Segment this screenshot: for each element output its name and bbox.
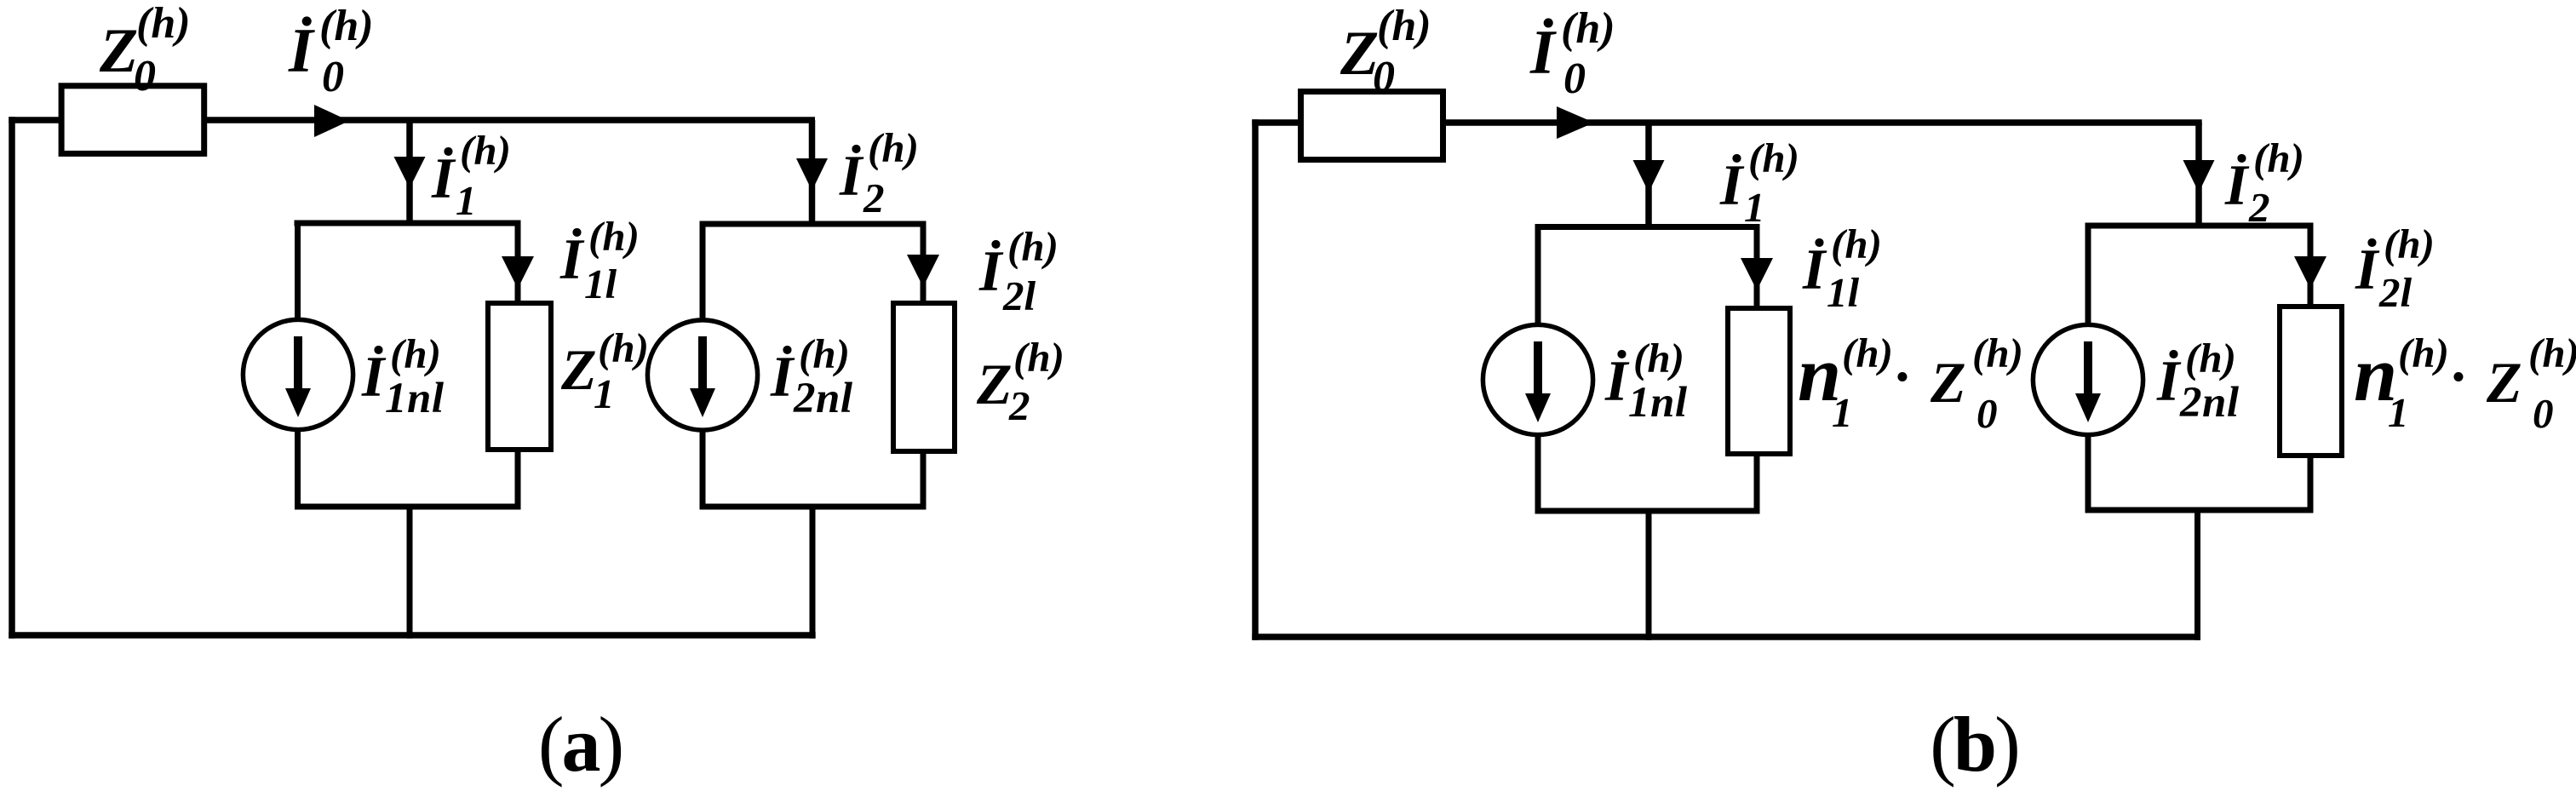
svg-text:(h): (h) (868, 124, 919, 171)
caption (a) (538, 701, 622, 788)
wire: (a) sub-loop-1 top (295, 221, 521, 226)
svg-text:(h): (h) (1842, 330, 1893, 376)
svg-text:(h): (h) (1972, 330, 2023, 376)
svg-text:Z: Z (560, 337, 597, 402)
svg-text:İ: İ (559, 226, 585, 291)
svg-text:1l: 1l (584, 261, 617, 307)
svg-text:1nl: 1nl (1628, 379, 1688, 427)
svg-text:(h): (h) (2384, 221, 2435, 267)
svg-text:(h): (h) (2528, 330, 2576, 376)
wire: (b) sub-loop-2 bottom (2085, 507, 2314, 513)
impedance n1*Z0 (b) branch 1 (1728, 308, 1790, 454)
svg-text:İ: İ (1529, 18, 1557, 88)
svg-text:(h): (h) (136, 0, 191, 48)
label Z0(h) (b) (1340, 2, 1431, 101)
svg-text:0: 0 (2533, 390, 2554, 437)
label I1nl(h) (b) (1604, 335, 1688, 427)
svg-text:1: 1 (456, 177, 477, 224)
wire: (b) outer-loop left vertical (1252, 119, 1259, 640)
svg-text:İ: İ (1719, 152, 1745, 217)
wire: (b) sub-loop-1 left upper (1535, 224, 1541, 325)
label I0(h) current (a) (288, 2, 374, 101)
svg-text:·: · (1895, 344, 1909, 409)
wire: (a) sub-loop-2 bottom stem (810, 507, 816, 639)
wire: (a) sub-loop-2 left lower (700, 428, 706, 510)
svg-text:2: 2 (863, 175, 885, 221)
svg-text:1l: 1l (1827, 269, 1860, 316)
svg-text:(h): (h) (319, 2, 374, 50)
wire: (a) sub-loop-2 left upper (700, 221, 706, 323)
current source I2nl (b) (2033, 324, 2143, 434)
svg-text:1: 1 (1832, 389, 1853, 436)
wire: (b) sub-loop-2 right lower (2308, 456, 2314, 513)
wire: (a) sub-loop-1 left lower (295, 428, 301, 510)
wire: (a) node-2 branch vertical (809, 120, 816, 226)
svg-text:(h): (h) (588, 213, 640, 260)
svg-text:(h): (h) (1633, 335, 1684, 381)
label I0(h) current (b) (1529, 4, 1615, 103)
wire: (b) top wire left segment (1252, 119, 1300, 126)
wire: (a) node-1 branch vertical (406, 120, 413, 223)
svg-text:(b): (b) (1930, 701, 2017, 788)
arrowhead I1l current direction (a) (502, 256, 534, 289)
wire: (b) node-1 branch vertical (1645, 123, 1652, 230)
svg-text:0: 0 (1373, 53, 1395, 101)
caption (b) (1930, 701, 2017, 788)
svg-text:0: 0 (134, 52, 156, 100)
svg-text:(h): (h) (460, 127, 511, 174)
svg-text:2: 2 (1008, 382, 1030, 429)
svg-text:(h): (h) (2185, 335, 2236, 381)
arrowhead I2 current direction (b) (2183, 160, 2215, 192)
resistor Z0 (b) (1301, 92, 1443, 160)
label I1l(h) (a) (559, 213, 640, 307)
label I1(h) (a) (431, 127, 511, 224)
svg-text:İ: İ (2224, 152, 2250, 217)
svg-text:0: 0 (1976, 390, 1998, 437)
svg-text:2l: 2l (1002, 272, 1036, 319)
wire: (b) node-2 branch vertical (2195, 123, 2202, 228)
svg-text:·: · (2451, 344, 2465, 409)
label n1(h)*Z0(h) (b) branch 1 (1798, 330, 2023, 437)
svg-text:Z: Z (976, 352, 1013, 416)
wire: (b) sub-loop-1 right lower (1754, 451, 1760, 514)
svg-text:(h): (h) (1748, 135, 1799, 181)
wire: (a) sub-loop-1 left upper (295, 221, 301, 323)
wire: (a) top wire right segment (Z0 to node 2) (204, 117, 815, 123)
wire: (b) sub-loop-1 bottom stem (1646, 511, 1652, 640)
svg-text:İ: İ (978, 238, 1004, 303)
resistor Z0 (a) (61, 86, 204, 154)
arrowhead I2l current direction (a) (907, 255, 939, 287)
impedance n1*Z0 (b) branch 2 (2280, 307, 2342, 456)
svg-text:2nl: 2nl (793, 375, 853, 422)
svg-text:(h): (h) (799, 330, 850, 377)
wire: (b) sub-loop-1 left lower (1535, 433, 1541, 514)
svg-text:(h): (h) (1007, 223, 1059, 270)
svg-text:İ: İ (839, 143, 864, 208)
svg-text:2nl: 2nl (2179, 379, 2240, 427)
arrowhead I2 current direction (a) (796, 158, 828, 191)
svg-text:2l: 2l (2378, 269, 2412, 316)
wire: (a) sub-loop-1 right lower (515, 450, 521, 510)
svg-text:İ: İ (431, 146, 456, 210)
arrowhead I0 current direction (b) (1557, 106, 1594, 139)
arrowhead I2l current direction (b) (2294, 256, 2326, 289)
svg-text:1: 1 (1744, 184, 1765, 231)
svg-text:(a): (a) (538, 701, 622, 788)
arrowhead I0 current direction (a) (314, 105, 349, 137)
wire: (b) sub-loop-2 top (2085, 223, 2314, 229)
wire: (a) sub-loop-1 right upper (515, 221, 521, 304)
svg-text:İ: İ (2156, 348, 2182, 413)
arrowhead I1 current direction (a) (394, 157, 426, 188)
svg-text:(h): (h) (1831, 221, 1882, 267)
svg-text:1: 1 (594, 370, 615, 417)
svg-text:(h): (h) (390, 330, 441, 377)
label Z0(h) (a) (99, 0, 191, 100)
svg-text:İ: İ (2355, 237, 2380, 301)
arrowhead I1l current direction (b) (1741, 258, 1773, 290)
label I1(h) (b) (1719, 135, 1799, 231)
svg-text:(h): (h) (2253, 135, 2304, 181)
svg-text:(h): (h) (2398, 330, 2449, 376)
wire: (a) sub-loop-1 bottom (295, 504, 521, 510)
svg-text:İ: İ (1604, 348, 1630, 413)
svg-text:(h): (h) (1377, 2, 1431, 50)
label n1(h)*Z0(h) (b) branch 2 (2354, 330, 2576, 437)
label I2nl(h) (b) (2156, 335, 2240, 427)
svg-text:Z: Z (1930, 350, 1966, 415)
impedance Z1 (a) (488, 303, 551, 450)
wire: (b) sub-loop-2 right upper (2308, 223, 2314, 307)
wire: (a) sub-loop-2 right upper (921, 221, 927, 304)
label I1nl(h) (a) (361, 330, 445, 422)
svg-text:0: 0 (1563, 54, 1586, 103)
wire: (b) sub-loop-2 bottom stem (2194, 510, 2200, 640)
wire: (a) sub-loop-2 top (700, 221, 927, 227)
svg-text:Z: Z (2486, 350, 2522, 415)
current source I1nl (a) (243, 319, 353, 429)
svg-text:İ: İ (770, 344, 795, 409)
impedance Z2 (a) (893, 303, 955, 451)
wire: (b) sub-loop-1 right upper (1754, 224, 1760, 308)
label I2(h) (b) (2224, 135, 2304, 231)
label I2(h) (a) (839, 124, 919, 221)
wire: (a) sub-loop-1 bottom stem (407, 507, 413, 639)
wire: (a) sub-loop-2 bottom (700, 504, 927, 510)
arrowhead I1 current direction (b) (1633, 160, 1665, 192)
label I2nl(h) (a) (770, 330, 853, 422)
svg-text:1: 1 (2388, 389, 2409, 436)
wire: (b) outer-loop bottom (1252, 634, 2200, 640)
svg-text:1nl: 1nl (385, 375, 445, 422)
svg-text:İ: İ (288, 16, 315, 86)
label I2l(h) (a) (978, 223, 1059, 319)
wire: (a) outer-loop bottom (9, 632, 815, 639)
wire: (b) top wire right segment (1443, 119, 2202, 126)
label I1l(h) (b) (1802, 221, 1882, 316)
wire: (b) sub-loop-1 top (1535, 224, 1760, 230)
svg-text:(h): (h) (598, 324, 649, 371)
wire: (a) sub-loop-2 right lower (921, 451, 927, 510)
svg-text:(h): (h) (1013, 334, 1064, 381)
wire: (a) outer-loop left vertical (9, 117, 15, 639)
label Z2(h) (a) (976, 334, 1064, 429)
wire: (b) sub-loop-1 bottom (1535, 508, 1760, 514)
svg-text:(h): (h) (1561, 4, 1615, 53)
svg-text:İ: İ (1802, 237, 1827, 301)
svg-text:0: 0 (322, 53, 344, 101)
svg-text:İ: İ (361, 344, 387, 409)
current source I2nl (a) (647, 320, 757, 430)
current source I1nl (b) (1483, 324, 1592, 434)
wire: (b) sub-loop-2 left upper (2085, 223, 2091, 326)
wire: (a) top wire left segment (node in to Z0) (9, 117, 61, 123)
label Z1(h) (a) (560, 324, 649, 417)
label I2l(h) (b) (2355, 221, 2435, 316)
wire: (b) sub-loop-2 left lower (2085, 433, 2091, 513)
svg-text:Z: Z (99, 16, 138, 86)
